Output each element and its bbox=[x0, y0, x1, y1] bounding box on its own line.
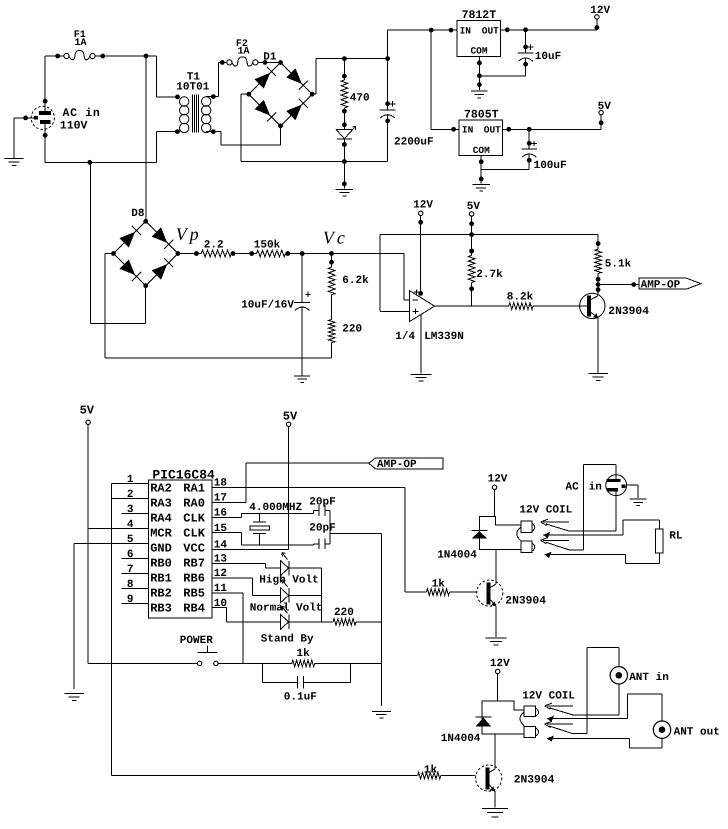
svg-text:220: 220 bbox=[334, 607, 354, 619]
svg-text:PIC16C84: PIC16C84 bbox=[152, 467, 215, 482]
svg-text:4: 4 bbox=[127, 519, 134, 531]
svg-text:9: 9 bbox=[127, 594, 134, 606]
svg-text:RB0: RB0 bbox=[150, 556, 172, 570]
svg-text:AC: AC bbox=[566, 482, 580, 494]
svg-text:2.2: 2.2 bbox=[204, 240, 224, 252]
svg-text:150k: 150k bbox=[254, 240, 281, 252]
svg-text:2N3904: 2N3904 bbox=[514, 775, 555, 787]
svg-text:12V: 12V bbox=[413, 199, 433, 211]
svg-text:High Volt: High Volt bbox=[259, 574, 318, 586]
svg-text:470: 470 bbox=[350, 93, 370, 105]
svg-text:1N4004: 1N4004 bbox=[441, 733, 481, 745]
svg-text:RB5: RB5 bbox=[183, 587, 205, 601]
svg-text:D1: D1 bbox=[263, 52, 277, 64]
svg-text:12V COIL: 12V COIL bbox=[522, 691, 575, 703]
svg-text:20pF: 20pF bbox=[309, 496, 335, 508]
svg-text:RA3: RA3 bbox=[150, 496, 172, 510]
svg-text:RB1: RB1 bbox=[150, 572, 172, 586]
svg-text:RB2: RB2 bbox=[150, 587, 172, 601]
svg-text:RB3: RB3 bbox=[150, 602, 172, 616]
svg-text:RB6: RB6 bbox=[183, 572, 205, 586]
svg-text:12V COIL: 12V COIL bbox=[519, 505, 572, 517]
svg-text:12V: 12V bbox=[590, 5, 610, 17]
svg-text:RB7: RB7 bbox=[183, 556, 205, 570]
svg-text:in: in bbox=[589, 482, 602, 494]
svg-text:COM: COM bbox=[470, 46, 487, 57]
svg-text:ANT out: ANT out bbox=[674, 726, 720, 738]
svg-text:7805T: 7805T bbox=[464, 109, 499, 122]
svg-text:6: 6 bbox=[127, 549, 134, 561]
svg-text:COM: COM bbox=[473, 145, 490, 156]
svg-text:5V: 5V bbox=[467, 201, 481, 213]
svg-text:8.2k: 8.2k bbox=[507, 292, 534, 304]
svg-text:1k: 1k bbox=[297, 648, 311, 660]
svg-text:1/4: 1/4 bbox=[395, 331, 415, 343]
svg-text:5V: 5V bbox=[598, 101, 612, 113]
svg-text:5V: 5V bbox=[283, 410, 298, 424]
svg-text:220: 220 bbox=[342, 323, 362, 335]
svg-text:10uF/16V: 10uF/16V bbox=[241, 300, 294, 312]
svg-text:LM339N: LM339N bbox=[424, 331, 464, 343]
svg-text:OUT: OUT bbox=[484, 125, 501, 136]
svg-text:2: 2 bbox=[127, 489, 134, 501]
svg-text:20pF: 20pF bbox=[309, 522, 335, 534]
svg-text:2200uF: 2200uF bbox=[394, 137, 434, 149]
svg-text:POWER: POWER bbox=[180, 635, 213, 647]
svg-text:IN: IN bbox=[462, 125, 474, 136]
svg-text:1k: 1k bbox=[432, 579, 446, 591]
svg-text:VCC: VCC bbox=[183, 541, 205, 555]
svg-text:7812T: 7812T bbox=[462, 9, 497, 22]
svg-text:RA1: RA1 bbox=[183, 481, 205, 495]
svg-text:RA4: RA4 bbox=[150, 511, 172, 525]
svg-text:ANT in: ANT in bbox=[629, 672, 669, 684]
svg-text:5V: 5V bbox=[80, 404, 95, 418]
svg-text:2N3904: 2N3904 bbox=[505, 596, 546, 608]
svg-text:3: 3 bbox=[127, 504, 134, 516]
svg-text:100uF: 100uF bbox=[534, 160, 567, 172]
svg-text:2.7k: 2.7k bbox=[476, 269, 503, 281]
svg-text:1A: 1A bbox=[238, 47, 250, 58]
svg-text:7: 7 bbox=[127, 564, 134, 576]
svg-text:0.1uF: 0.1uF bbox=[284, 692, 317, 704]
svg-text:IN: IN bbox=[460, 25, 472, 36]
svg-text:110V: 110V bbox=[60, 119, 88, 132]
svg-text:Stand By: Stand By bbox=[261, 634, 314, 646]
svg-text:AC in: AC in bbox=[63, 107, 101, 120]
svg-text:10uF: 10uF bbox=[535, 51, 561, 63]
svg-text:CLK: CLK bbox=[183, 526, 205, 540]
svg-text:5.1k: 5.1k bbox=[605, 259, 632, 271]
svg-text:AMP-OP: AMP-OP bbox=[377, 459, 417, 471]
svg-text:RB4: RB4 bbox=[183, 602, 205, 616]
svg-text:Normal Volt: Normal Volt bbox=[250, 603, 323, 615]
svg-text:8: 8 bbox=[127, 579, 134, 591]
svg-text:Vp: Vp bbox=[176, 224, 202, 244]
svg-text:4.000MHZ: 4.000MHZ bbox=[249, 502, 302, 514]
svg-text:12V: 12V bbox=[488, 473, 508, 485]
svg-text:OUT: OUT bbox=[482, 25, 499, 36]
svg-text:GND: GND bbox=[150, 541, 172, 555]
svg-text:MCR: MCR bbox=[150, 526, 172, 540]
svg-text:1A: 1A bbox=[75, 38, 87, 49]
svg-text:2N3904: 2N3904 bbox=[608, 306, 649, 318]
svg-text:5: 5 bbox=[127, 534, 134, 546]
svg-text:6.2k: 6.2k bbox=[342, 275, 369, 287]
svg-text:12V: 12V bbox=[490, 658, 510, 670]
svg-text:1: 1 bbox=[127, 474, 134, 486]
svg-text:RL: RL bbox=[669, 530, 683, 542]
svg-text:1N4004: 1N4004 bbox=[437, 550, 477, 562]
svg-text:1k: 1k bbox=[424, 764, 438, 776]
svg-text:RA2: RA2 bbox=[150, 481, 172, 495]
svg-text:AMP-OP: AMP-OP bbox=[641, 279, 681, 291]
svg-text:CLK: CLK bbox=[183, 511, 205, 525]
svg-text:D8: D8 bbox=[131, 208, 145, 220]
svg-text:Vc: Vc bbox=[323, 228, 348, 248]
svg-text:10T01: 10T01 bbox=[176, 81, 209, 93]
svg-text:RA0: RA0 bbox=[183, 496, 205, 510]
